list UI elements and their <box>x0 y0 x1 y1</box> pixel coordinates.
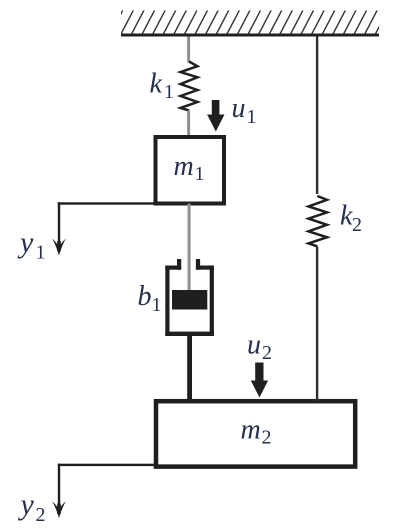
svg-text:2: 2 <box>262 427 272 449</box>
ceiling baseline <box>121 34 379 37</box>
label y1 <box>17 226 46 264</box>
force arrow U2 <box>251 363 268 398</box>
svg-text:u: u <box>247 330 261 361</box>
svg-text:1: 1 <box>247 106 257 128</box>
svg-text:m: m <box>241 415 261 446</box>
svg-text:m: m <box>174 151 194 182</box>
output arrow Y1 <box>52 202 66 256</box>
spring K2 <box>309 196 328 246</box>
svg-text:k: k <box>150 69 163 100</box>
output arrow Y2 <box>52 464 66 519</box>
rod from mass m1 to damper piston <box>188 204 191 291</box>
damper B1 piston <box>172 290 207 310</box>
label y2 <box>18 488 46 526</box>
label k1 <box>150 69 175 104</box>
mass M1 <box>156 137 225 204</box>
svg-text:2: 2 <box>262 342 272 364</box>
damper B1 cylinder <box>165 259 214 336</box>
svg-text:u: u <box>232 93 246 124</box>
label u2 <box>247 330 272 365</box>
wire y1 horizontal <box>58 202 157 204</box>
svg-text:1: 1 <box>195 163 205 185</box>
rod from damper to mass m2 <box>187 336 192 400</box>
svg-text:b: b <box>138 281 152 312</box>
svg-text:1: 1 <box>164 81 174 103</box>
force arrow U1 <box>207 100 224 132</box>
label u1 <box>232 93 257 128</box>
wire y2 horizontal <box>58 464 156 466</box>
ceiling fixed support hatching <box>110 10 388 34</box>
label b1 <box>138 281 162 316</box>
rod from ceiling to spring k1 <box>187 37 190 63</box>
svg-text:y: y <box>18 488 35 521</box>
spring K1 <box>181 62 198 111</box>
svg-text:1: 1 <box>36 242 46 264</box>
label m1 <box>174 151 205 185</box>
rod from ceiling to spring k2 <box>316 37 318 195</box>
label m2 <box>241 415 272 449</box>
svg-text:1: 1 <box>152 294 162 316</box>
mass M2 <box>156 401 355 466</box>
svg-text:2: 2 <box>352 214 362 236</box>
label k2 <box>340 201 362 237</box>
rod from spring k1 to mass m1 <box>187 111 190 138</box>
svg-text:2: 2 <box>36 504 46 526</box>
rod from spring k2 to mass m2 <box>316 247 318 402</box>
svg-text:y: y <box>17 226 34 259</box>
